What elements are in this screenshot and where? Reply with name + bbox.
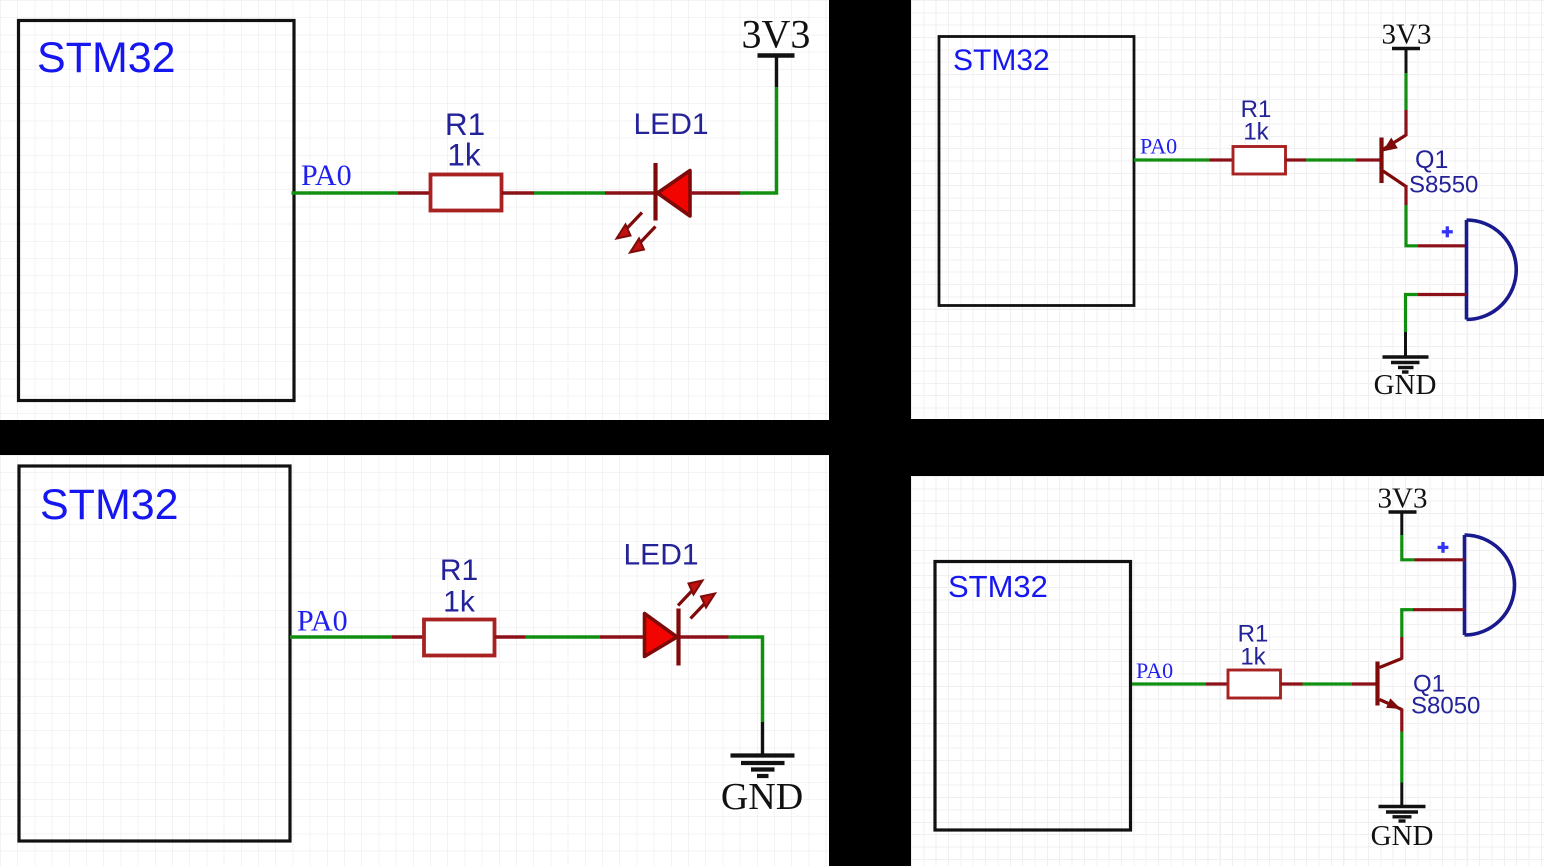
wire stub maroon (R1 pin2) (502, 191, 535, 195)
collector wire green up (1400, 610, 1403, 637)
svg-text:PA0: PA0 (1136, 658, 1173, 683)
wire green (R1 to Q1 base) (1306, 158, 1356, 161)
resistor R1 (1228, 670, 1281, 698)
LED1 emission arrow 1 (617, 213, 643, 239)
wire PA0 green (pin to R1) (290, 635, 392, 639)
svg-text:STM32: STM32 (40, 481, 179, 529)
resistor R1 (431, 175, 502, 211)
MCU U1 box STM32 (935, 562, 1131, 831)
emitter wire green up (1404, 73, 1407, 110)
svg-text:STM32: STM32 (948, 569, 1048, 604)
power 3V3 stem (775, 54, 778, 87)
emitter wire maroon up (1404, 110, 1407, 136)
transistor Q1 collector (1380, 659, 1402, 668)
ground GND bar4 (757, 774, 769, 778)
svg-text:LED1: LED1 (624, 539, 699, 572)
wire green (LED1 to 3V3 corner) (740, 87, 777, 193)
collector wire maroon down (1404, 185, 1407, 205)
svg-text:1k: 1k (1243, 119, 1269, 146)
wire stub maroon (to R1 pin1) (392, 635, 425, 639)
LED1 emission arrow 2 (691, 594, 716, 619)
wire green (R1 to LED1) (526, 635, 601, 639)
transistor Q1 S8050 base bar (1375, 662, 1379, 706)
wire PA0 green (pin to R1) (1132, 682, 1206, 685)
wire green (buzzer - to collector) (1400, 608, 1413, 611)
wire PA0 green (pin to R1) (1134, 158, 1210, 161)
wire green (LED1 to GND corner) (729, 637, 763, 722)
LED1 emission arrow 2 (630, 227, 656, 253)
LED1 cathode bar (653, 163, 657, 221)
wire stub maroon (to R1 pin1) (1206, 682, 1229, 685)
svg-text:GND: GND (1371, 820, 1434, 852)
wire PA0 green (pin to R1) (292, 191, 399, 195)
panel 2 background (top-right schematic) (911, 0, 1544, 419)
ground GND bar2 (741, 761, 785, 765)
svg-text:S8550: S8550 (1409, 171, 1478, 198)
power 3V3 bar (1389, 510, 1417, 513)
ground GND stem (1404, 332, 1407, 357)
collector wire maroon up (1400, 637, 1403, 660)
transistor Q1 emitter (with PNP arrow into base) (1383, 135, 1406, 150)
power 3V3 bar (758, 53, 795, 58)
wire maroon (to buzzer + pin) (1418, 244, 1467, 247)
svg-text:3V3: 3V3 (1378, 483, 1428, 515)
svg-text:LED1: LED1 (634, 108, 709, 141)
ground GND bar3 (1398, 366, 1414, 369)
power 3V3 stem (1400, 511, 1403, 535)
wire stub maroon (to Q1 base) (1352, 682, 1376, 685)
svg-text:STM32: STM32 (953, 44, 1050, 77)
resistor R1 (424, 620, 495, 656)
panel 3 background (bottom-left schematic) (0, 455, 829, 866)
ground GND bar3 (1393, 815, 1412, 818)
LED1 triangle (points left) (658, 171, 691, 217)
svg-text:GND: GND (721, 776, 803, 818)
wire stub maroon (R1 pin2) (1281, 682, 1303, 685)
wire stub maroon (to R1 pin1) (1210, 158, 1234, 161)
svg-text:R1: R1 (440, 554, 478, 587)
wire green (buzzer + to 3V3 corner) (1402, 535, 1415, 560)
svg-text:3V3: 3V3 (742, 12, 811, 57)
wire stub maroon (to Q1 base) (1356, 158, 1380, 161)
buzzer LS1 flat edge (1465, 220, 1469, 320)
svg-text:1k: 1k (1240, 644, 1266, 671)
wire green (R1 to LED1) (534, 191, 605, 195)
wire stub maroon (R1 pin2) (495, 635, 526, 639)
buzzer LS1 dome (1467, 220, 1517, 320)
buzzer LS1 flat edge (1463, 535, 1467, 635)
buzzer plus sign (1442, 230, 1453, 233)
ground GND bar2 (1386, 810, 1418, 813)
svg-text:1k: 1k (447, 137, 481, 173)
ground GND bar3 (751, 767, 775, 771)
MCU U1 box STM32 (19, 21, 295, 401)
wire green (buzzer to GND corner) (1406, 295, 1419, 333)
panel 1 background (top-left schematic) (0, 0, 829, 420)
transistor Q1 collector (1383, 171, 1406, 187)
wire stub maroon (to R1 pin1) (398, 191, 431, 195)
svg-text:GND: GND (1374, 369, 1437, 401)
power 3V3 stem (1405, 48, 1408, 74)
transistor Q1 S8550 base bar (1379, 138, 1383, 184)
wire green (R1 to Q1 base) (1303, 682, 1353, 685)
svg-text:PA0: PA0 (301, 159, 352, 192)
svg-text:PA0: PA0 (297, 605, 348, 638)
LED1 emission arrow 1 (678, 581, 703, 606)
panel 4 background (bottom-right schematic) (911, 476, 1544, 866)
buzzer plus sign (1438, 546, 1449, 549)
wire stub maroon (R1 pin2) (1286, 158, 1307, 161)
ground GND stem (761, 722, 764, 756)
svg-text:Q1: Q1 (1415, 146, 1448, 174)
svg-text:PA0: PA0 (1140, 133, 1177, 158)
LED1 triangle (points right) (645, 614, 678, 657)
svg-text:1k: 1k (443, 586, 476, 619)
ground GND bar4 (1402, 370, 1409, 373)
svg-text:S8050: S8050 (1411, 693, 1480, 720)
transistor Q1 emitter (with NPN arrow outward) (1380, 700, 1402, 710)
power 3V3 bar (1392, 47, 1420, 51)
wire maroon (buzzer - pin) (1418, 293, 1467, 296)
wire stub maroon (LED1 anode) (690, 191, 740, 195)
emitter wire green down (1400, 732, 1403, 783)
ground GND stem (1400, 783, 1403, 807)
ground GND bar1 (731, 753, 795, 757)
wire maroon (buzzer + pin) (1415, 558, 1465, 561)
buzzer LS1 dome (1465, 535, 1515, 635)
ground GND bar2 (1391, 361, 1420, 364)
emitter wire maroon down (1400, 709, 1403, 732)
MCU U1 box STM32 (939, 37, 1134, 306)
svg-text:3V3: 3V3 (1382, 19, 1432, 51)
svg-text:STM32: STM32 (37, 34, 176, 82)
collector wire green down to corner (1406, 205, 1418, 246)
wire stub maroon (LED1 cathode) (680, 635, 729, 639)
LED1 cathode bar (676, 609, 680, 666)
wire stub maroon (to LED1 anode) (600, 635, 646, 639)
ground GND bar4 (1399, 819, 1406, 822)
ground GND bar1 (1379, 805, 1426, 808)
wire maroon (buzzer - pin) (1413, 608, 1465, 611)
wire stub maroon (to LED1 cathode) (605, 191, 656, 195)
ground GND bar1 (1383, 355, 1429, 358)
MCU U1 box STM32 (19, 466, 290, 841)
resistor R1 (1233, 147, 1286, 175)
